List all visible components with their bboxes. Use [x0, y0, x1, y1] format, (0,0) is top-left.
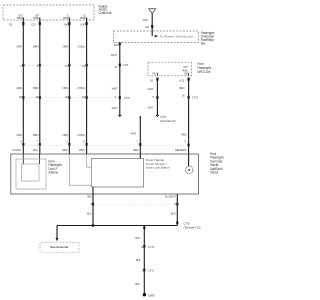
svg-text:Antenna: Antenna: [48, 170, 58, 174]
svg-text:WHT: WHT: [111, 53, 117, 57]
svg-text:LT BLU: LT BLU: [77, 133, 85, 137]
svg-text:PRND: PRND: [33, 17, 39, 20]
svg-text:YSU: YSU: [152, 72, 157, 75]
svg-text:WHT: WHT: [131, 132, 137, 136]
svg-text:LT GRN: LT GRN: [12, 148, 21, 152]
svg-text:RED: RED: [179, 86, 184, 90]
svg-text:C773: C773: [192, 95, 199, 99]
svg-text:WHT: WHT: [148, 106, 154, 110]
svg-text:See Grounds: See Grounds: [50, 245, 68, 249]
svg-text:WHT: WHT: [112, 106, 118, 110]
svg-text:BLU/WHT: BLU/WHT: [165, 194, 176, 198]
svg-text:C771: C771: [123, 63, 130, 67]
svg-text:BLU: BLU: [33, 148, 38, 152]
svg-text:ORN: ORN: [62, 133, 68, 137]
svg-text:RED/WHT: RED/WHT: [175, 148, 187, 152]
svg-text:Control Unit: Control Unit: [99, 11, 112, 15]
svg-text:C771: C771: [148, 269, 155, 273]
svg-text:LT BLU: LT BLU: [77, 86, 85, 90]
svg-text:A18: A18: [64, 23, 69, 27]
svg-text:E13: E13: [114, 43, 119, 47]
svg-text:(Terminals 1-6): (Terminals 1-6): [160, 119, 176, 123]
svg-text:Sensor: Sensor: [210, 171, 219, 175]
svg-text:BRN: BRN: [33, 133, 38, 137]
svg-text:BRN: BRN: [33, 86, 38, 90]
svg-text:RED: RED: [133, 148, 138, 152]
svg-text:C774: C774: [148, 245, 155, 249]
svg-text:A20: A20: [80, 23, 85, 27]
svg-text:GRN: GRN: [16, 133, 22, 137]
svg-text:PRND: PRND: [63, 17, 69, 20]
svg-text:(Terminals 7-12): (Terminals 7-12): [184, 226, 201, 230]
svg-text:C13: C13: [31, 23, 36, 27]
svg-text:MPCS Unit: MPCS Unit: [197, 70, 210, 74]
svg-text:WHT: WHT: [112, 86, 118, 90]
svg-text:PRND: PRND: [80, 17, 86, 20]
svg-text:WHT: WHT: [148, 87, 154, 91]
svg-text:A23: A23: [179, 78, 184, 82]
svg-text:WHT: WHT: [79, 148, 85, 152]
svg-text:BLK: BLK: [87, 212, 92, 216]
svg-text:BLK: BLK: [135, 282, 140, 286]
svg-text:ORN: ORN: [62, 148, 68, 152]
svg-text:ORN: ORN: [62, 86, 68, 90]
svg-text:BLK: BLK: [87, 195, 92, 199]
svg-text:To Power Distribution: To Power Distribution: [160, 35, 194, 39]
svg-text:Box: Box: [201, 41, 206, 45]
svg-text:ORN: ORN: [62, 44, 68, 48]
svg-text:BRN: BRN: [33, 44, 38, 48]
svg-text:PRND: PRND: [17, 17, 23, 20]
svg-text:BLK: BLK: [171, 212, 176, 216]
svg-text:LT BLU: LT BLU: [77, 44, 85, 48]
svg-text:WHT: WHT: [143, 18, 149, 22]
svg-text:G508: G508: [148, 293, 155, 297]
svg-text:Door Lock Button: Door Lock Button: [146, 166, 170, 170]
svg-text:RED: RED: [181, 132, 186, 136]
svg-text:BLK: BLK: [136, 258, 141, 262]
svg-text:C772: C772: [124, 96, 131, 100]
svg-text:GRN: GRN: [16, 86, 22, 90]
svg-text:GRN: GRN: [16, 44, 22, 48]
svg-text:BLK: BLK: [135, 236, 140, 240]
